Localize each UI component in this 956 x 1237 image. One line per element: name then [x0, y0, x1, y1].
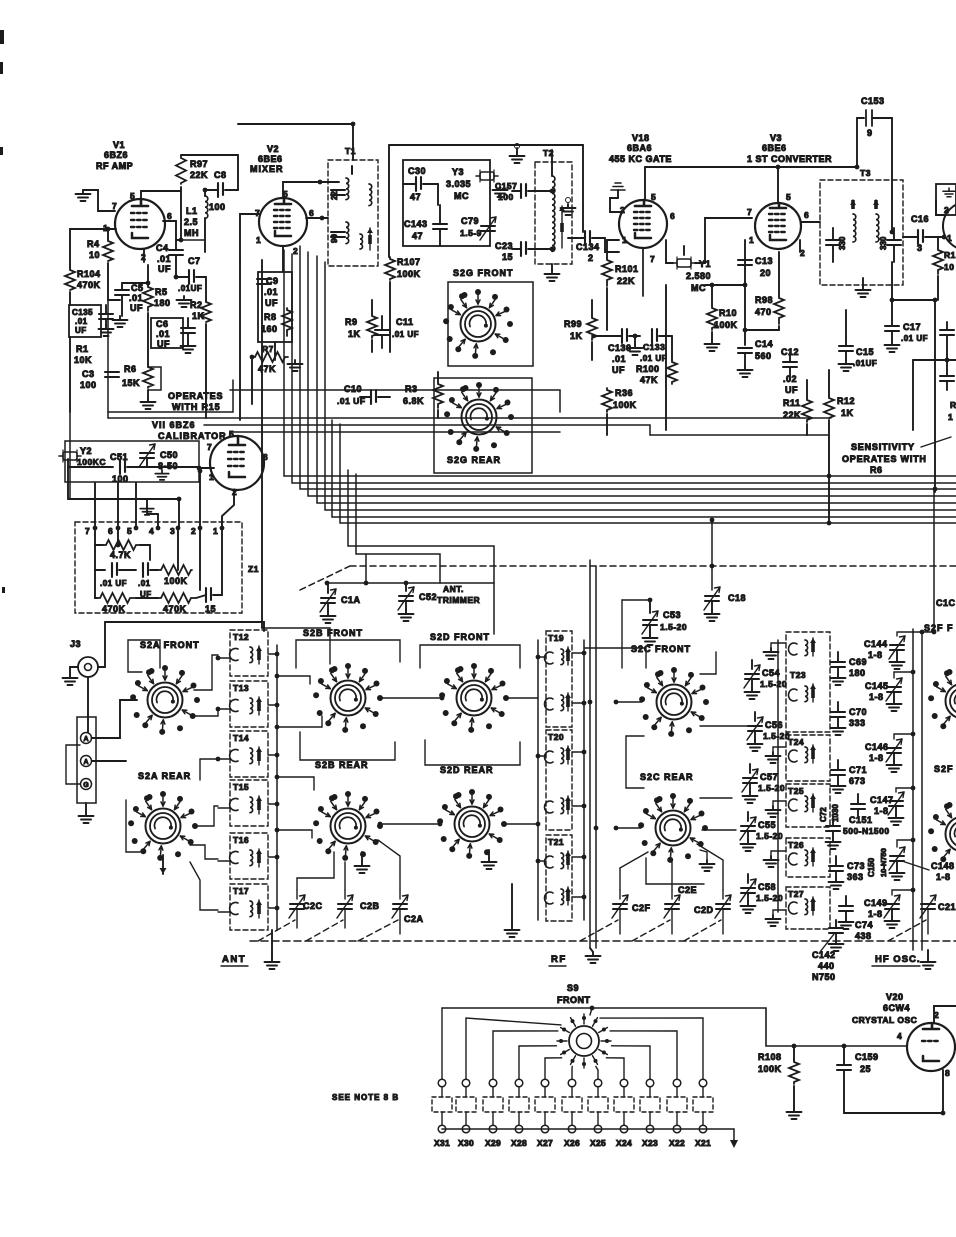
svg-text:90: 90: [330, 234, 339, 243]
svg-text:T27: T27: [788, 889, 804, 899]
svg-text:R4: R4: [87, 239, 100, 249]
svg-text:X30: X30: [458, 1138, 474, 1148]
svg-text:10: 10: [89, 250, 100, 260]
svg-text:A: A: [83, 736, 88, 743]
svg-text:C2B: C2B: [360, 901, 380, 911]
svg-text:FRONT: FRONT: [557, 995, 591, 1005]
svg-text:J3: J3: [70, 639, 81, 649]
svg-text:3.035: 3.035: [446, 179, 471, 189]
svg-text:6: 6: [108, 526, 113, 536]
svg-text:S2B REAR: S2B REAR: [315, 760, 369, 770]
svg-text:1 ST CONVERTER: 1 ST CONVERTER: [747, 154, 832, 164]
svg-text:UF: UF: [265, 298, 278, 308]
svg-text:6BE6: 6BE6: [762, 143, 787, 153]
svg-text:G: G: [83, 782, 89, 789]
svg-text:C1C: C1C: [936, 598, 956, 608]
svg-text:47: 47: [412, 231, 423, 241]
svg-text:C13: C13: [755, 256, 773, 266]
svg-text:L1: L1: [186, 206, 198, 216]
svg-text:R1: R1: [944, 250, 956, 260]
svg-text:C150: C150: [867, 857, 876, 877]
svg-text:S2D FRONT: S2D FRONT: [430, 632, 490, 642]
svg-text:6: 6: [263, 452, 268, 462]
svg-text:C56: C56: [765, 720, 783, 730]
svg-text:C145: C145: [865, 681, 889, 691]
svg-text:1.5-20: 1.5-20: [660, 622, 687, 632]
svg-text:S2F: S2F: [934, 764, 954, 774]
svg-text:25: 25: [860, 1064, 871, 1074]
svg-text:RF AMP: RF AMP: [96, 161, 133, 171]
svg-text:T19: T19: [548, 633, 564, 643]
svg-text:X22: X22: [669, 1138, 685, 1148]
svg-text:100K: 100K: [758, 1064, 782, 1074]
svg-text:22K: 22K: [783, 410, 801, 420]
svg-text:180: 180: [154, 298, 171, 308]
svg-text:47: 47: [410, 192, 421, 202]
svg-text:C148: C148: [931, 861, 955, 871]
svg-text:6.8K: 6.8K: [403, 396, 424, 406]
svg-text:C15: C15: [856, 347, 874, 357]
svg-text:X29: X29: [485, 1138, 501, 1148]
svg-text:C53: C53: [663, 610, 681, 620]
svg-text:C3: C3: [82, 369, 95, 379]
svg-text:C2E: C2E: [678, 885, 697, 895]
svg-text:X27: X27: [537, 1138, 553, 1148]
svg-text:Y3: Y3: [452, 167, 464, 177]
svg-text:T21: T21: [548, 837, 564, 847]
svg-text:.01 UF: .01 UF: [100, 579, 127, 588]
svg-text:Z1: Z1: [248, 564, 259, 574]
svg-text:RF: RF: [551, 954, 567, 965]
svg-text:T17: T17: [233, 886, 249, 896]
svg-text:R108: R108: [758, 1052, 782, 1062]
svg-text:2: 2: [191, 526, 196, 536]
svg-text:1-8: 1-8: [874, 806, 889, 816]
svg-text:1: 1: [622, 235, 627, 245]
svg-text:5: 5: [651, 192, 656, 202]
svg-text:5: 5: [786, 192, 791, 202]
svg-text:2.580: 2.580: [686, 271, 711, 281]
svg-text:5: 5: [229, 429, 234, 439]
svg-text:C14: C14: [755, 339, 773, 349]
svg-text:1: 1: [948, 412, 953, 422]
svg-text:X26: X26: [564, 1138, 580, 1148]
svg-text:T23: T23: [790, 670, 806, 680]
svg-text:8: 8: [945, 1068, 950, 1078]
svg-text:100K: 100K: [714, 320, 738, 330]
svg-text:C135: C135: [72, 308, 93, 317]
svg-text:.01: .01: [75, 317, 88, 326]
svg-text:C21: C21: [938, 902, 956, 912]
svg-text:C5: C5: [131, 283, 144, 293]
svg-text:.02: .02: [783, 374, 797, 384]
svg-text:1: 1: [213, 526, 218, 536]
svg-text:2: 2: [620, 205, 625, 215]
svg-text:7: 7: [747, 207, 752, 217]
svg-text:363: 363: [847, 872, 864, 882]
svg-text:3: 3: [917, 243, 923, 253]
svg-text:6BE6: 6BE6: [258, 154, 283, 164]
svg-text:CALIBRATOR: CALIBRATOR: [158, 431, 227, 441]
svg-text:100K: 100K: [397, 269, 421, 279]
svg-text:455 KC GATE: 455 KC GATE: [609, 154, 672, 164]
svg-text:X25: X25: [590, 1138, 606, 1148]
svg-text:C1A: C1A: [341, 595, 361, 605]
svg-text:.01UF: .01UF: [178, 284, 202, 293]
svg-text:ANT.: ANT.: [443, 584, 464, 594]
svg-text:C70: C70: [849, 707, 867, 717]
svg-text:C146: C146: [865, 742, 889, 752]
svg-text:R97: R97: [190, 159, 208, 169]
svg-text:C143: C143: [404, 219, 428, 229]
svg-text:UF: UF: [130, 303, 143, 313]
svg-text:7: 7: [207, 442, 212, 452]
svg-text:UF: UF: [612, 365, 625, 375]
svg-text:TRIMMER: TRIMMER: [437, 595, 480, 605]
svg-text:R36: R36: [615, 388, 633, 398]
svg-text:S2A FRONT: S2A FRONT: [140, 640, 200, 650]
svg-text:S2C REAR: S2C REAR: [640, 772, 694, 782]
svg-text:N750: N750: [812, 972, 836, 982]
svg-text:1-8: 1-8: [869, 753, 884, 763]
svg-text:T1: T1: [345, 146, 356, 156]
svg-text:160: 160: [261, 324, 278, 334]
svg-text:180: 180: [849, 668, 866, 678]
svg-text:C157: C157: [495, 181, 517, 191]
svg-text:5: 5: [127, 526, 132, 536]
svg-text:C55: C55: [758, 820, 776, 830]
svg-text:C6: C6: [156, 319, 169, 329]
svg-text:C153: C153: [861, 96, 885, 106]
svg-text:V3: V3: [770, 133, 782, 143]
svg-text:T20: T20: [548, 732, 564, 742]
svg-text:100K: 100K: [164, 576, 188, 586]
svg-text:15K: 15K: [122, 378, 140, 388]
svg-text:6: 6: [804, 210, 809, 220]
svg-text:UF: UF: [75, 326, 87, 335]
svg-text:10-N750: 10-N750: [879, 848, 888, 877]
svg-text:470K: 470K: [102, 604, 126, 614]
svg-text:.01 UF: .01 UF: [901, 334, 928, 343]
svg-text:15: 15: [502, 252, 513, 262]
svg-text:S2D REAR: S2D REAR: [440, 765, 494, 775]
svg-text:100: 100: [498, 192, 514, 202]
svg-text:C30: C30: [408, 166, 426, 176]
svg-text:V20: V20: [886, 992, 904, 1002]
svg-text:UF: UF: [785, 385, 798, 395]
svg-text:C74: C74: [855, 920, 873, 930]
svg-text:OPERATES WITH: OPERATES WITH: [842, 454, 927, 464]
svg-text:R: R: [950, 400, 956, 410]
svg-text:.01UF: .01UF: [853, 359, 877, 368]
svg-text:R6: R6: [870, 465, 883, 475]
svg-text:2: 2: [293, 246, 298, 256]
svg-text:C7: C7: [188, 256, 201, 266]
svg-text:2.5: 2.5: [184, 217, 198, 227]
svg-text:100KC: 100KC: [77, 457, 106, 467]
svg-text:1.5-20: 1.5-20: [756, 831, 783, 841]
svg-text:1.5-20: 1.5-20: [756, 893, 783, 903]
svg-text:T13: T13: [233, 683, 249, 693]
svg-text:1K: 1K: [348, 329, 361, 339]
svg-text:C69: C69: [849, 657, 867, 667]
svg-text:A: A: [83, 759, 88, 766]
svg-text:673: 673: [849, 776, 866, 786]
svg-text:C134: C134: [576, 242, 600, 252]
svg-text:560: 560: [755, 351, 772, 361]
svg-text:C58: C58: [758, 882, 776, 892]
svg-text:T25: T25: [788, 786, 804, 796]
svg-text:10: 10: [944, 262, 954, 272]
svg-text:C23: C23: [495, 241, 513, 251]
svg-text:X23: X23: [642, 1138, 658, 1148]
svg-text:.01: .01: [156, 329, 170, 339]
svg-text:S2C FRONT: S2C FRONT: [631, 644, 691, 654]
svg-text:C11: C11: [396, 317, 414, 327]
svg-text:S9: S9: [567, 983, 579, 993]
svg-text:C16: C16: [911, 214, 929, 224]
svg-text:C79: C79: [461, 216, 479, 226]
svg-text:1: 1: [749, 235, 754, 245]
svg-text:T15: T15: [233, 782, 249, 792]
svg-text:100: 100: [80, 380, 97, 390]
svg-text:1.5-20: 1.5-20: [758, 783, 785, 793]
svg-text:470: 470: [755, 307, 772, 317]
svg-text:47K: 47K: [258, 364, 276, 374]
svg-text:7: 7: [650, 254, 655, 264]
svg-text:MH: MH: [184, 228, 199, 238]
svg-text:330: 330: [879, 236, 888, 250]
svg-text:R104: R104: [77, 269, 101, 279]
svg-text:R99: R99: [564, 319, 582, 329]
svg-text:C51: C51: [110, 452, 128, 462]
svg-text:UF: UF: [158, 264, 171, 274]
svg-text:X21: X21: [695, 1138, 711, 1148]
svg-text:MIXER: MIXER: [250, 164, 284, 174]
svg-text:T3: T3: [860, 168, 871, 178]
svg-text:Y2: Y2: [80, 446, 92, 456]
svg-text:T14: T14: [233, 733, 249, 743]
svg-text:6: 6: [167, 211, 172, 221]
svg-text:47K: 47K: [640, 375, 658, 385]
svg-text:R11: R11: [783, 398, 801, 408]
svg-text:R9: R9: [345, 317, 358, 327]
svg-text:R6: R6: [124, 364, 137, 374]
svg-text:2: 2: [588, 253, 594, 263]
svg-text:C2F: C2F: [632, 903, 651, 913]
svg-text:470K: 470K: [77, 280, 101, 290]
svg-text:.01 UF: .01 UF: [640, 354, 667, 363]
svg-text:1.5-9: 1.5-9: [460, 228, 482, 238]
svg-text:100K: 100K: [613, 400, 637, 410]
svg-text:OPERATES: OPERATES: [168, 391, 223, 401]
svg-text:6BZ6: 6BZ6: [104, 150, 128, 160]
svg-text:1: 1: [209, 472, 214, 482]
svg-text:R100: R100: [636, 364, 660, 374]
svg-text:C50: C50: [160, 450, 178, 460]
svg-text:6: 6: [309, 208, 314, 218]
svg-text:1K: 1K: [841, 408, 854, 418]
svg-text:C147: C147: [870, 795, 894, 805]
svg-text:R1: R1: [76, 344, 89, 354]
svg-text:.01: .01: [138, 579, 151, 588]
svg-text:R8: R8: [264, 312, 277, 322]
svg-text:7: 7: [85, 526, 90, 536]
svg-text:R107: R107: [397, 257, 421, 267]
svg-text:.01: .01: [612, 354, 626, 364]
svg-text:1-8: 1-8: [868, 650, 883, 660]
svg-text:C2A: C2A: [404, 914, 424, 924]
svg-text:9: 9: [867, 128, 873, 138]
svg-text:V1: V1: [113, 140, 125, 150]
svg-text:438: 438: [855, 931, 872, 941]
svg-text:6BA6: 6BA6: [627, 143, 652, 153]
svg-text:.01 UF: .01 UF: [392, 330, 419, 339]
svg-text:.01: .01: [264, 287, 278, 297]
svg-text:R101: R101: [615, 264, 639, 274]
svg-text:3: 3: [170, 526, 175, 536]
svg-text:CRYSTAL OSC: CRYSTAL OSC: [852, 1015, 917, 1025]
svg-text:X24: X24: [616, 1138, 632, 1148]
svg-text:C8: C8: [214, 170, 227, 180]
svg-text:20: 20: [760, 268, 771, 278]
svg-text:C73: C73: [847, 861, 865, 871]
svg-text:100: 100: [112, 474, 129, 484]
svg-text:R10: R10: [719, 308, 737, 318]
svg-text:ANT: ANT: [222, 954, 246, 965]
svg-text:S2G FRONT: S2G FRONT: [453, 268, 514, 278]
svg-text:MC: MC: [691, 283, 706, 293]
svg-text:.01: .01: [129, 293, 143, 303]
svg-text:1K: 1K: [570, 331, 583, 341]
svg-text:C159: C159: [855, 1052, 879, 1062]
svg-text:R12: R12: [837, 396, 855, 406]
svg-text:S2B FRONT: S2B FRONT: [303, 628, 363, 638]
svg-text:C52: C52: [419, 592, 437, 602]
svg-text:C71: C71: [849, 765, 867, 775]
svg-text:HF OSC.: HF OSC.: [875, 954, 921, 965]
svg-text:C149: C149: [864, 898, 888, 908]
svg-text:7: 7: [112, 201, 117, 211]
svg-text:6: 6: [670, 211, 675, 221]
svg-text:22K: 22K: [190, 170, 208, 180]
svg-text:1: 1: [947, 233, 952, 243]
svg-text:C2D: C2D: [694, 905, 714, 915]
svg-text:VII 6BZ6: VII 6BZ6: [152, 420, 196, 430]
svg-text:6CW4: 6CW4: [883, 1003, 910, 1013]
svg-text:1-8: 1-8: [936, 872, 951, 882]
svg-text:T24: T24: [788, 737, 804, 747]
svg-text:SEE NOTE 8 B: SEE NOTE 8 B: [332, 1093, 399, 1102]
svg-text:4.7K: 4.7K: [110, 550, 131, 560]
svg-text:X28: X28: [511, 1138, 527, 1148]
svg-text:4: 4: [149, 526, 154, 536]
svg-text:1-8: 1-8: [868, 909, 883, 919]
svg-text:C72: C72: [819, 807, 828, 822]
svg-text:WITH R15: WITH R15: [172, 402, 220, 412]
svg-text:C2C: C2C: [303, 901, 323, 911]
svg-text:4: 4: [897, 1031, 902, 1041]
svg-text:C10: C10: [344, 384, 362, 394]
svg-text:C18: C18: [728, 593, 746, 603]
svg-text:440: 440: [818, 961, 835, 971]
svg-text:2: 2: [944, 205, 949, 215]
svg-text:15: 15: [205, 604, 216, 614]
svg-text:1: 1: [256, 235, 261, 245]
svg-text:22: 22: [330, 191, 339, 200]
svg-text:1-8: 1-8: [869, 692, 884, 702]
svg-text:R3: R3: [405, 384, 418, 394]
svg-text:22K: 22K: [617, 276, 635, 286]
svg-text:5: 5: [130, 191, 135, 201]
svg-text:R5: R5: [155, 287, 168, 297]
svg-text:470K: 470K: [163, 604, 187, 614]
svg-text:C151: C151: [849, 815, 873, 825]
svg-text:S2A REAR: S2A REAR: [138, 771, 191, 781]
svg-text:330: 330: [838, 236, 847, 250]
svg-text:100: 100: [209, 202, 226, 212]
svg-text:500-N1500: 500-N1500: [843, 826, 890, 836]
svg-text:X31: X31: [434, 1138, 450, 1148]
svg-text:C142: C142: [812, 950, 836, 960]
svg-text:C17: C17: [903, 322, 921, 332]
svg-text:10K: 10K: [74, 355, 92, 365]
svg-text:V2: V2: [267, 144, 279, 154]
svg-text:C133: C133: [643, 342, 665, 352]
svg-text:T16: T16: [233, 835, 249, 845]
svg-text:UF: UF: [157, 339, 170, 349]
svg-text:SENSITIVITY: SENSITIVITY: [851, 442, 915, 452]
svg-text:R98: R98: [755, 295, 773, 305]
svg-text:T12: T12: [233, 632, 249, 642]
svg-text:S2G REAR: S2G REAR: [447, 455, 501, 465]
svg-text:C57: C57: [760, 772, 778, 782]
svg-text:1.5-20: 1.5-20: [760, 679, 787, 689]
svg-text:333: 333: [849, 718, 866, 728]
svg-text:7: 7: [255, 208, 260, 218]
svg-text:C130: C130: [608, 343, 632, 353]
svg-text:V18: V18: [632, 133, 650, 143]
svg-text:C4: C4: [156, 243, 169, 253]
svg-text:T26: T26: [788, 840, 804, 850]
svg-text:MC: MC: [454, 191, 469, 201]
svg-text:C144: C144: [864, 639, 888, 649]
